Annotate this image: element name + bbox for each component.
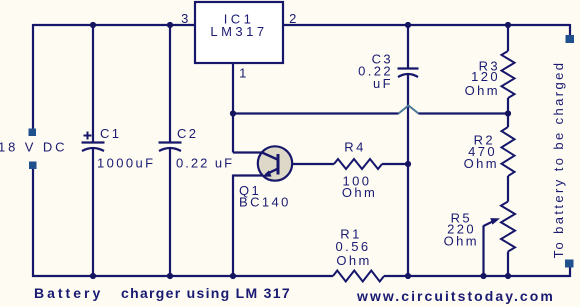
- svg-text:Ohm: Ohm: [444, 234, 479, 249]
- resistor R2: [502, 127, 515, 176]
- wire C3 bottom lead / bias line: [407, 74, 409, 277]
- wire Q1 base lead to R4: [278, 163, 334, 165]
- terminal output -: [565, 260, 574, 268]
- wire adjust node to divider (right part): [419, 112, 509, 114]
- svg-text:R4: R4: [344, 140, 365, 155]
- terminal input -: [29, 162, 37, 170]
- wire IC pin1 down to adjust node: [232, 63, 234, 153]
- C1 plus sign: [84, 135, 92, 137]
- svg-text:C1: C1: [100, 126, 121, 141]
- wire Q1 collector lead: [233, 151, 262, 153]
- node: bottom rail junctions: [90, 273, 96, 279]
- wire R5 bottom lead: [507, 252, 509, 278]
- transistor Q1: [258, 146, 292, 180]
- wire Q1 emitter lead: [233, 174, 264, 176]
- node: top rail junctions: [90, 22, 96, 28]
- wire left input drop: [32, 24, 34, 129]
- wire R3-R2 link: [507, 98, 509, 127]
- wire hop over C3 line: [399, 106, 419, 114]
- svg-text:uF: uF: [373, 76, 393, 91]
- svg-text:Battery: Battery: [34, 285, 103, 301]
- wire C2 bottom lead: [169, 148, 171, 277]
- wire stub to output - terminal: [569, 267, 571, 277]
- wire C1 bottom lead: [92, 148, 94, 277]
- svg-text:120: 120: [471, 69, 500, 84]
- svg-text:18 V DC: 18 V DC: [0, 140, 67, 155]
- wire top rail right (IC pin2 to output +): [282, 24, 570, 26]
- wire Q1 emitter drop to bottom rail: [232, 175, 234, 277]
- R5 wiper arrow: [482, 226, 484, 278]
- wire top rail left (input + to IC pin3): [33, 24, 196, 26]
- resistor R1: [333, 271, 384, 282]
- svg-text:Ohm: Ohm: [465, 83, 500, 98]
- wire stub to output + terminal: [569, 24, 571, 36]
- wire C3 top lead: [407, 25, 409, 69]
- node: adjust line junctions: [230, 110, 236, 116]
- node: R4/divider junction: [405, 161, 411, 167]
- wire C2 top lead: [169, 25, 171, 142]
- capacitor C3: [398, 67, 419, 69]
- svg-text:0.22 uF: 0.22 uF: [176, 156, 234, 171]
- wire R2-R5 link: [507, 176, 509, 202]
- wire left input bottom drop: [32, 169, 34, 278]
- wire R4 right lead: [382, 163, 408, 165]
- svg-text:Ohm: Ohm: [336, 253, 371, 268]
- svg-text:3: 3: [181, 11, 191, 26]
- svg-text:www.circuitstoday.com: www.circuitstoday.com: [356, 288, 555, 304]
- svg-text:1: 1: [239, 66, 249, 81]
- capacitor C2: [159, 141, 182, 143]
- wire bottom rail right: [384, 275, 571, 277]
- capacitor C1: [82, 141, 105, 143]
- svg-text:1000uF: 1000uF: [97, 156, 156, 171]
- resistor R3: [502, 51, 515, 98]
- svg-text:To battery to be charged: To battery to be charged: [551, 61, 566, 259]
- terminal input +: [29, 129, 37, 137]
- svg-text:charger using LM 317: charger using LM 317: [121, 285, 291, 301]
- svg-text:LM317: LM317: [210, 24, 267, 39]
- svg-text:C2: C2: [177, 126, 198, 141]
- svg-text:BC140: BC140: [239, 195, 291, 210]
- svg-text:Ohm: Ohm: [342, 185, 377, 200]
- op-amp/regulator IC1 box: [195, 2, 283, 63]
- terminal output +: [566, 35, 575, 43]
- resistor R4: [334, 159, 382, 169]
- wire R3 top lead: [507, 24, 509, 51]
- wire C1 top lead: [92, 25, 94, 142]
- svg-text:Ohm: Ohm: [464, 156, 499, 171]
- svg-text:2: 2: [289, 11, 299, 26]
- resistor R5 (pot): [501, 202, 515, 252]
- svg-text:0.56: 0.56: [336, 239, 371, 254]
- wire bottom rail left: [32, 275, 333, 277]
- wire adjust node to divider (left part): [233, 112, 399, 114]
